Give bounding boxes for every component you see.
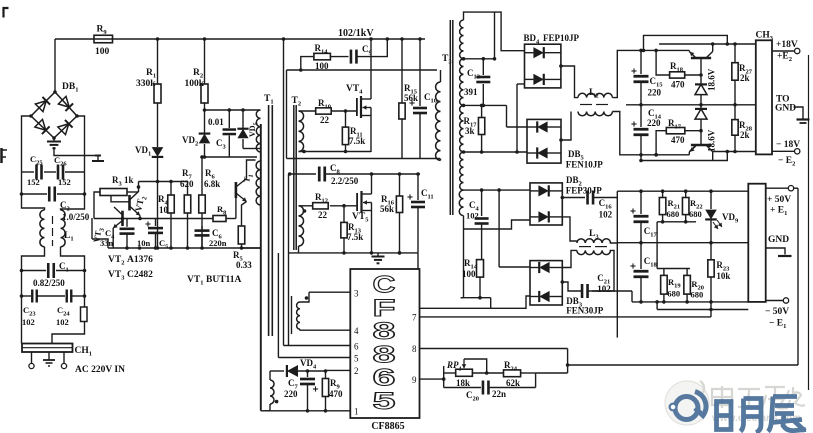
svg-text:A1376: A1376 [127,255,153,265]
svg-text:18.6V: 18.6V [707,129,717,152]
transformer T3 core [449,20,451,215]
wire DB3 input1 [498,190,500,267]
mid rail 50V gnd [617,242,747,244]
svg-text:4: 4 [354,326,359,336]
wire L3 bottom out [588,250,614,291]
BD4 input2 wire [516,84,518,152]
wire left rail down [21,172,23,194]
ground at bridge bottom [53,138,55,142]
resistor R5 0.33 [238,226,245,244]
wire DB2 input1 [482,189,530,191]
wire DB2 low to L3 [562,217,577,241]
svg-text:6.8k: 6.8k [204,179,220,189]
svg-text:102/1kV: 102/1kV [338,28,374,39]
capacitor C2 [22,193,48,195]
wire bridge bottom to earth [54,147,95,156]
resistor R1 [157,39,159,84]
svg-text:0.01: 0.01 [208,117,224,127]
wire L3 top out [610,198,618,244]
capacitor C26 [57,165,60,180]
wire rails to X caps [21,271,23,297]
edge mark left [0,148,3,163]
transformer T1 primary winding upper [256,110,260,152]
wire VD5 tap [256,148,261,150]
resistor R18 470 [656,50,670,75]
svg-text:470: 470 [329,389,343,399]
wire left rail to connector [21,296,23,344]
wire R3 left down [94,192,100,219]
capacitor C21 102 [581,284,584,298]
svg-text:2.2/250: 2.2/250 [331,176,359,186]
resistor R9 [94,35,113,43]
wire C21 to rail [587,290,589,292]
resistor R14b 100 [477,260,484,278]
resistor R4 10 [170,182,172,196]
transformer T1 primary winding lower [256,161,260,205]
resistor R16 56k [399,174,401,196]
wire VD2 down [204,144,206,157]
resistor R9b 470 [325,371,327,379]
svg-text:102: 102 [56,317,69,327]
capacitor C15 220 [640,50,642,74]
zener VD 18.6V upper [700,66,702,84]
long vertical mid [288,174,290,346]
wire L2 bottom out [612,112,689,155]
diode VD2 [199,134,211,144]
corner mark top-left [4,8,9,18]
diode VD1 [152,147,164,157]
svg-text:1: 1 [354,407,359,417]
resistor R14 100 [301,57,314,70]
svg-text:22n: 22n [492,389,506,399]
svg-text:+18V: +18V [776,40,798,50]
wire DB3 out [562,282,582,291]
resistor R12 22 [313,203,329,209]
capacitor C5 10n [155,219,157,227]
ground mid bus [377,253,379,257]
svg-text:100: 100 [462,269,476,279]
wire R2 to node [204,103,206,133]
wire VD1 down [157,158,159,249]
resistor R8 [213,216,226,222]
resistor R6 [201,157,203,195]
long feedback wire [568,364,798,366]
svg-text:100: 100 [95,47,110,57]
wire R23 bottom [657,309,748,311]
svg-text:BUT11A: BUT11A [206,275,242,285]
terminal -50V [766,300,784,302]
T3 secondary winding [464,12,525,51]
terminal pins under CH1 [31,352,33,364]
svg-text:18k: 18k [456,378,470,388]
watermark ghost logo disc [665,381,709,425]
inductor L1 common-mode choke [22,194,45,210]
transformer T3 primary [436,82,441,160]
wire R21 R22 bottoms [657,221,696,223]
wire bridge top feed [54,39,56,92]
ground mid section [242,247,261,249]
svg-text:3k: 3k [465,126,475,136]
resistor R13 7.5k [343,206,345,223]
tap3 wire [464,151,528,153]
bridge rectifier DB1 [31,92,77,138]
connector CH1 [22,344,73,353]
capacitor C8 2.2/250 [290,173,316,175]
diode VD5 [242,110,244,128]
wire BD4 out to L2 [561,66,578,98]
wire DB5 out [561,112,571,141]
svg-text:680: 680 [667,209,680,219]
svg-text:220: 220 [647,118,661,128]
svg-text:9: 9 [412,375,417,385]
wire pin9 node [442,377,446,381]
wire C25-C26 [44,171,56,173]
capacitor C20 22n [444,387,481,389]
resistor R20 680 [686,269,688,276]
tap2 wire [464,104,507,106]
wire hfb [139,181,189,183]
mid gnd rail [626,104,756,106]
long vertical to pin6 [283,39,285,346]
wire bottom loop [641,152,727,161]
wire bottom bus left section [108,247,261,249]
capacitor C4 33n [126,219,128,227]
MOSFET VT5 [356,193,358,211]
resistor R22 680 [685,191,687,197]
resistor R27 2k [734,44,736,63]
fuse on right rail [84,296,86,307]
long vertical to pin5 [277,253,279,358]
svg-text:0.33: 0.33 [236,260,252,270]
svg-text:1.0/250: 1.0/250 [62,212,90,222]
svg-text:AC 220V IN: AC 220V IN [75,365,125,375]
svg-text:22: 22 [320,115,330,125]
svg-text:FEP10JP: FEP10JP [543,33,579,43]
wire long vertical left of T1 [260,124,262,411]
transistor VT3 [121,211,124,226]
resistor R28 2k [734,105,736,120]
resistor R10 22 [316,108,332,114]
svg-text:56k: 56k [380,204,394,214]
capacitor C12 391 [482,59,484,75]
terminal +50V [766,187,789,189]
svg-text:FEP30JP: FEP30JP [566,186,602,196]
wire source return [299,151,372,153]
+50V top rail [616,191,618,197]
MOSFET VT4 [356,98,358,116]
watermark char chen [768,397,806,432]
transformer T1 core [268,105,270,336]
wire snubber bottom [202,156,257,158]
wire gate [299,110,316,112]
svg-text:CF8865: CF8865 [371,421,404,432]
resistor R11 7.5k [345,111,347,127]
rectifier DB3 [530,261,562,305]
-50V bottom rail [632,301,748,303]
svg-text:C2482: C2482 [127,270,153,280]
wire R8 to VT1 base [235,197,237,219]
wire T3 return to IC [420,307,491,309]
rectifier DB5 [527,119,561,163]
capacitor C24 [66,290,68,303]
wire secondary lower tap [464,189,482,191]
svg-text:102: 102 [466,211,479,221]
resistor R23 10k [708,260,714,277]
resistor R17 3k [481,105,483,117]
wire top rail [55,38,284,40]
svg-text:7.5k: 7.5k [349,136,365,146]
svg-text:FEN10JP: FEN10JP [566,160,604,170]
wire bridge left rail [22,116,32,172]
resistor R17b 470 [656,131,666,155]
capacitor C47 [640,191,642,214]
capacitor C3 0.01 [228,110,230,128]
aux winding [269,371,271,380]
wire right rail down [84,172,86,194]
svg-text:391: 391 [464,87,478,97]
resistor R15 56k [401,39,403,103]
svg-text:− 18V: − 18V [776,140,800,150]
snubber loop wires [286,70,288,159]
capacitor C9 [330,56,348,58]
capacitor C10 [419,39,421,106]
watermark char ri [717,397,807,433]
transistor Q2 PNP [691,144,711,147]
diode VD9 LED [710,191,712,209]
watermark logo ring [670,392,706,420]
svg-text:102: 102 [22,317,35,327]
svg-text:3: 3 [354,289,359,299]
svg-text:220: 220 [648,88,662,98]
wire L2 top out [612,50,689,97]
wire net to pin8 [536,372,568,374]
capacitor C7 220 [307,371,309,377]
rectifier DB2 [530,183,562,225]
wire center tap return [461,297,491,299]
capacitor C18 [640,243,642,269]
svg-text:680: 680 [689,209,702,219]
feedback winding pins 3-4 [300,292,309,302]
svg-text:470: 470 [671,80,685,90]
transformer T2 secondary lower [303,209,307,213]
wire top loop a [644,35,728,50]
wire DB2 input2 [464,220,531,229]
svg-text:152: 152 [27,177,40,187]
svg-text:2: 2 [354,366,359,376]
svg-text:220: 220 [284,389,298,399]
potentiometer RP1 18k [444,372,456,374]
capacitor C4b 102 [481,190,483,216]
svg-text:+ 50V: + 50V [767,195,791,205]
svg-text:7: 7 [412,313,417,323]
watermark ghost hanzi [712,386,805,409]
wire gate VT5 [299,205,313,207]
svg-text:220n: 220n [209,238,227,248]
svg-text:5: 5 [373,388,396,415]
svg-text:152: 152 [58,177,71,187]
svg-text:8: 8 [412,344,417,354]
svg-text:10k: 10k [716,271,730,281]
wire bottom to pin1 [261,410,270,412]
transformer T2 secondary upper [299,111,304,151]
capacitor C25 [22,171,35,173]
node wire to T1 top [205,109,261,111]
wire top loop b [659,43,756,45]
wire VT1 collector to T1 [247,160,256,179]
svg-text:680: 680 [691,290,704,300]
svg-text:18.6V: 18.6V [707,68,717,91]
tap1 wire [464,58,495,60]
svg-text:1k: 1k [124,175,134,185]
transformer T2 core [293,105,295,250]
resistor R2 [204,39,206,84]
svg-text:6: 6 [354,342,359,352]
capacitor C14 220 [640,105,642,127]
svg-text:102: 102 [599,210,613,220]
svg-text:GND: GND [775,104,796,114]
watermark char yue [741,399,762,433]
wire VT2 base lead [111,196,129,202]
svg-text:56k: 56k [404,93,418,103]
resistor R19 680 [656,243,658,269]
DB5 input1 wire [506,105,508,127]
resistor R7 [187,182,189,196]
svg-text:10: 10 [159,205,169,215]
wire R3 right to collector [127,191,139,193]
transistor VT1 [235,182,238,198]
diode VD4 [270,370,284,372]
wire bridge right rail [77,116,85,172]
earth symbol right of bridge [95,155,101,157]
terminal +18V [772,50,795,52]
svg-text:FEN30JP: FEN30JP [566,306,604,316]
svg-text:7.5k: 7.5k [347,232,363,242]
svg-text:GND: GND [768,235,789,245]
svg-text:62k: 62k [506,378,520,388]
svg-text:5: 5 [354,354,359,364]
svg-text:22: 22 [318,210,328,220]
svg-text:2k: 2k [740,73,750,83]
terminal -18V [772,150,795,152]
zener VD 18.6V lower [700,105,702,109]
resistor R21 680 [662,191,664,197]
IC U1 CF8865 box [350,269,419,418]
capacitor C1 [22,270,47,272]
svg-text:− 50V: − 50V [765,307,789,317]
wire R1 to VD1 [157,103,159,147]
resistor R24 62k [472,372,503,374]
svg-text:0.82/250: 0.82/250 [33,278,65,288]
transistor VT2 [128,195,131,211]
svg-text:102: 102 [597,284,611,294]
svg-text:2k: 2k [740,130,750,140]
svg-text:680: 680 [667,289,680,299]
svg-text:100k: 100k [185,79,205,89]
wire 310V rail [284,38,426,40]
svg-text:470: 470 [671,135,685,145]
svg-text:330k: 330k [136,79,156,89]
wire base bus [94,218,213,220]
vertical mid link [616,243,618,338]
capacitor C11 [417,174,419,200]
transistor Q1 NPN [691,57,711,60]
rectifier BD4 [525,44,561,88]
connector CH4 [748,184,765,302]
page border right [808,55,810,390]
wire bottom mid bus [289,252,419,254]
wire VT1 emitter to R5 [242,202,247,227]
capacitor C23 [22,295,32,297]
capacitor C46 102 [562,197,585,199]
